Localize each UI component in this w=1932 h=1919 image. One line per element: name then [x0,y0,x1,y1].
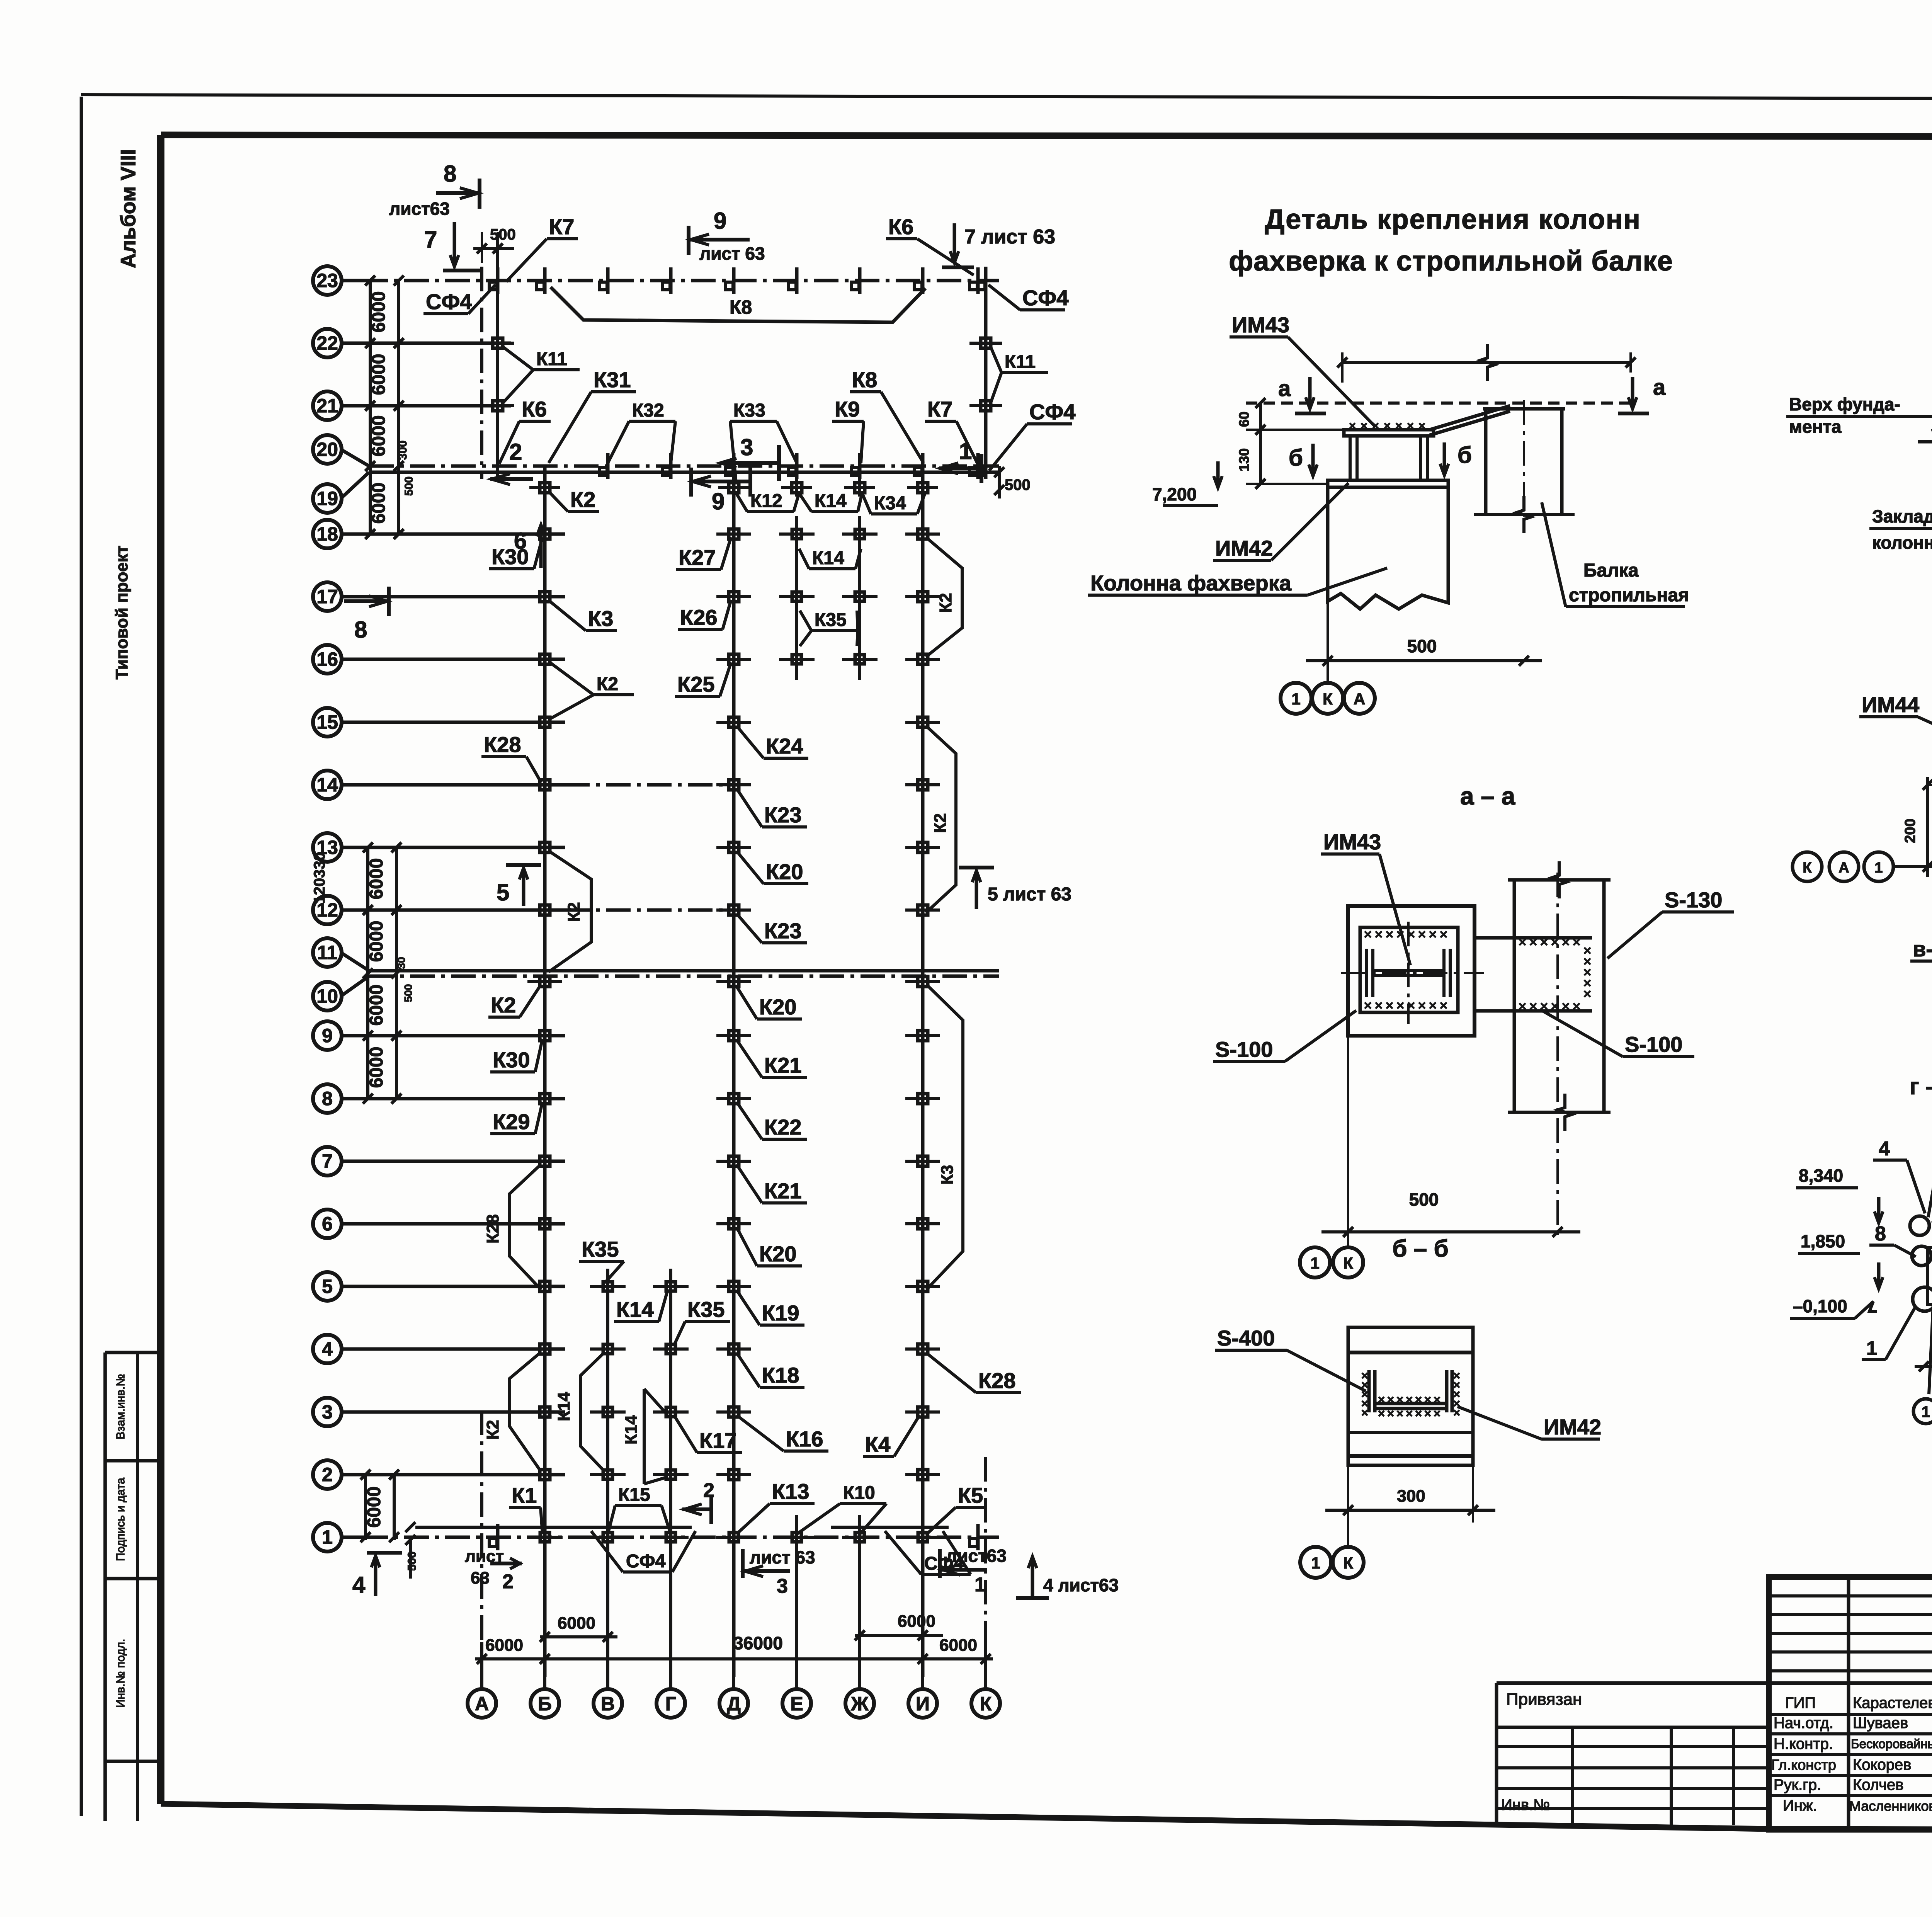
svg-text:А: А [475,1693,489,1715]
svg-text:К2: К2 [565,902,583,922]
svg-text:9: 9 [714,208,726,234]
svg-text:Подпись и дата: Подпись и дата [114,1478,127,1561]
svg-text:2: 2 [703,1479,714,1502]
axis A..K lower stubs to letter circles [480,1642,483,1689]
auxiliary table Привязан [1495,1683,1498,1825]
а-а weld marks on bar [1519,939,1580,945]
axis circle 23 [313,266,342,295]
section mark 8 right (axis 18 left) [344,599,388,603]
column K on Д axis row 2 [729,1470,739,1480]
svg-text:6000: 6000 [485,1636,523,1655]
column K on И axis row 17 [918,592,928,602]
detail1 top dimension line [1342,361,1631,364]
svg-text:К14: К14 [622,1415,641,1444]
axis 9 line [342,1034,565,1038]
г-г column symbol [1910,1216,1929,1235]
axis circle 18 [313,520,342,548]
svg-text:СФ4: СФ4 [1022,286,1068,310]
row 23 column ticks [496,267,500,294]
svg-text:9: 9 [712,488,724,514]
svg-text:7,200: 7,200 [1152,484,1197,504]
column K on Д axis row 12 [729,905,739,915]
svg-text:К8: К8 [730,296,752,318]
svg-text:120330: 120330 [311,852,328,903]
svg-text:К28: К28 [484,732,521,757]
axis circle 8 [313,1084,342,1113]
а-а connecting bar [1475,936,1592,940]
column K on И axis row 9 [918,1031,928,1041]
axis Д vertical [732,466,736,1677]
svg-text:К8: К8 [852,367,877,392]
svg-text:К: К [980,1693,992,1715]
svg-text:К21: К21 [764,1179,801,1203]
svg-text:К34: К34 [874,493,906,514]
svg-text:Нач.отд.: Нач.отд. [1774,1715,1833,1732]
svg-text:18: 18 [316,523,338,545]
column K on И axis row 2 [918,1470,928,1480]
columns row 19 below line on Б Д Е Ж И [540,483,550,493]
column group К8 bracket [551,287,925,322]
svg-text:К7: К7 [927,397,952,421]
axis 22 line [342,342,511,345]
section mark 5 лист 63 (right) [959,866,994,869]
column K on И axis row 15 [918,717,928,727]
svg-text:г – г: г – г [1910,1073,1932,1099]
svg-text:К2: К2 [491,993,516,1017]
row 1 column crosses [527,1536,563,1539]
section mark 3 (axis 20) [777,445,781,481]
section mark 2 left (axis 1) [709,1495,713,1524]
svg-text:500: 500 [403,476,415,496]
svg-text:500: 500 [1407,636,1437,656]
label К2 rotated bracket И axes 18-16 [926,537,962,657]
svg-text:Рук.гр.: Рук.гр. [1774,1776,1821,1793]
label К14 rotated bracket В axes 4-2 [580,1352,605,1472]
svg-text:3: 3 [740,434,753,460]
axis Ж vertical mid [858,518,861,680]
axis circle 9 [313,1021,342,1050]
dimension chain rows 23-18 [369,281,372,534]
column K on Б axis row 5 [540,1281,550,1291]
г-г axis circle 1 [1913,1399,1932,1424]
axis 14 line [342,783,565,787]
svg-text:500: 500 [1005,476,1031,493]
а-а column I-section [1365,949,1368,997]
svg-text:лист 63: лист 63 [750,1547,815,1567]
axis circle 21 [313,391,342,420]
svg-text:б – б: б – б [1392,1235,1449,1262]
svg-text:6000: 6000 [364,1487,384,1528]
axis 19 line [369,471,999,474]
svg-text:лист63: лист63 [389,199,450,219]
bottom section mark 2 right [490,1562,522,1565]
column K on Д axis row 15 [729,717,739,727]
dim 500 below axis 1 [409,1537,412,1579]
axis 12 dash-dot extension [565,908,738,912]
axis Е vertical upper [795,466,798,497]
label К14 rotated bracket Г axes 3-2 [643,1389,646,1484]
svg-text:Взам.инв.№: Взам.инв.№ [114,1374,127,1439]
svg-text:Привязан: Привязан [1506,1690,1582,1709]
svg-text:К13: К13 [772,1479,809,1504]
svg-text:Колонна фахверка: Колонна фахверка [1090,571,1292,595]
column K on Б axis row 2 [540,1470,550,1480]
svg-text:1: 1 [1922,1404,1930,1421]
svg-text:1: 1 [975,1574,986,1596]
svg-text:17: 17 [316,586,338,607]
svg-text:8: 8 [322,1088,333,1109]
axis circle 13 [313,833,342,862]
б-б axis circles 1 К [1347,1523,1349,1547]
svg-text:6: 6 [322,1213,333,1235]
svg-text:S-400: S-400 [1217,1326,1275,1350]
column K on Д axis row 3 [729,1407,739,1417]
axis 6 line [342,1222,565,1226]
svg-text:К11: К11 [536,349,567,369]
detail1 beam centreline [1523,400,1525,526]
axis 3 line [342,1410,565,1414]
column K on Б axis row 17 [540,592,550,602]
svg-text:1: 1 [1311,1554,1320,1572]
column K on Б axis row 8 [540,1094,550,1104]
fachwerk columns on Е Ж rows 16-18 (crosses) [779,658,815,661]
column K on И axis row 7 [918,1156,928,1166]
svg-text:4 лист63: 4 лист63 [1043,1575,1119,1595]
svg-text:СФ4: СФ4 [626,1551,666,1572]
svg-text:мента: мента [1789,417,1842,437]
axis circle 15 [313,708,342,737]
svg-text:К5: К5 [958,1483,983,1507]
svg-text:К14: К14 [812,548,844,568]
svg-text:К20: К20 [759,1242,796,1266]
axis 1 line (dash-dot) [363,1536,999,1539]
svg-text:К21: К21 [764,1053,801,1077]
axis Ж vertical lower [858,1515,861,1677]
axis circle 3 [313,1398,342,1426]
axis circle 10 [313,982,342,1011]
margin stamp table [104,1352,107,1821]
svg-text:200: 200 [1902,818,1918,843]
svg-text:К22: К22 [764,1115,801,1139]
svg-text:К4: К4 [865,1432,890,1456]
axis circle 17 [313,582,342,611]
svg-text:К28: К28 [978,1368,1015,1393]
svg-text:К: К [1323,690,1333,708]
svg-text:10: 10 [316,985,338,1007]
svg-text:500: 500 [406,1552,418,1571]
svg-text:Инв.№ подл.: Инв.№ подл. [114,1639,127,1708]
axis И vertical [921,466,925,1677]
title block staff rows [1769,1713,1932,1716]
svg-text:К20: К20 [759,995,796,1019]
axis К vertical upper [984,267,988,479]
svg-text:Колчев: Колчев [1853,1776,1903,1793]
bottom dim row Б-В 6000 [540,1635,617,1638]
svg-text:1: 1 [1310,1254,1319,1272]
а-а beam flange (vertical) [1513,880,1516,1112]
svg-text:3: 3 [777,1575,788,1597]
sheet outer border left [80,97,83,1816]
svg-text:5: 5 [497,880,509,905]
axis 8 line [342,1097,565,1101]
axis circle 16 [313,645,342,674]
svg-text:1: 1 [322,1526,333,1548]
svg-text:К6: К6 [888,214,913,239]
svg-text:К9: К9 [835,397,860,421]
column K on И axis row 18 [918,529,928,539]
svg-text:фахверка к стропильной балке: фахверка к стропильной балке [1229,246,1673,277]
б-б column outline [1348,1327,1473,1465]
svg-text:1,850: 1,850 [1801,1231,1845,1251]
axis circle 7 [313,1147,342,1176]
bottom main dim row 6000-36000-6000 [475,1657,993,1660]
axis circle 5 [313,1272,342,1301]
svg-text:Кокорев: Кокорев [1853,1756,1911,1773]
svg-text:63: 63 [471,1569,490,1587]
svg-text:К26: К26 [680,605,717,629]
svg-text:7 лист 63: 7 лист 63 [964,226,1055,248]
axis 13 line [342,846,565,849]
svg-text:К35: К35 [815,610,847,630]
svg-text:23: 23 [316,270,338,291]
column K on Б axis row 15 [540,717,550,727]
detail1 axis circles 1 К А [1327,672,1329,683]
svg-text:ГИП: ГИП [1785,1694,1816,1711]
svg-text:1: 1 [1291,690,1300,708]
svg-text:А: А [1838,860,1849,876]
svg-text:б: б [1289,445,1303,471]
svg-text:S-100: S-100 [1215,1037,1273,1062]
svg-text:6000: 6000 [366,1047,387,1088]
svg-text:Шуваев: Шуваев [1853,1715,1908,1732]
svg-text:6000: 6000 [369,483,389,524]
detail1 труss beam (балка стропильная) [1484,409,1488,515]
label К3 rotated bracket И axes 10-5 [927,985,963,1290]
svg-text:3: 3 [322,1401,333,1423]
svg-text:Бескоровайный: Бескоровайный [1851,1737,1932,1751]
axis circle 6 [313,1210,342,1238]
axis 10 line (dash-dot) [369,975,999,978]
bottom dim row Ж-И 6000 [855,1634,943,1637]
column K on Б axis row 18 [540,529,550,539]
svg-text:Д: Д [727,1693,741,1715]
svg-text:Деталь крепления колонн: Деталь крепления колонн [1265,204,1641,235]
svg-text:7: 7 [424,226,437,252]
axis Г vertical lower [669,1271,672,1677]
svg-text:Типовой проект: Типовой проект [112,546,131,680]
bottom section mark 4 up with лист63 [1031,1557,1034,1598]
б-б channel cap with welds [1367,1370,1371,1412]
label К2 rotated bracket Б axes 4-2 [509,1352,541,1472]
svg-text:6000: 6000 [558,1614,595,1633]
svg-text:14: 14 [316,774,338,796]
column K on Д axis row 13 [729,842,739,852]
label К2 rotated bracket Б axes 13-11 [549,851,591,972]
svg-text:8: 8 [354,617,367,643]
svg-text:К7: К7 [549,214,574,239]
svg-text:К: К [1343,1554,1353,1572]
drawing frame [157,135,165,1804]
column K on Д axis row 7 [729,1156,739,1166]
в-в dim 200 [1926,777,1929,877]
svg-text:ИМ43: ИМ43 [1323,830,1381,854]
svg-text:Гл.констр: Гл.констр [1771,1757,1836,1773]
а-а beam centreline [1556,873,1559,1239]
svg-text:21: 21 [316,395,338,417]
section mark 5 up (left) [506,863,541,867]
letter axis circles А-К [468,1689,496,1718]
а-а embed plate with welds [1360,927,1458,1012]
column K on Д axis row 14 [729,780,739,790]
svg-text:4: 4 [1879,1138,1890,1160]
svg-text:20: 20 [316,439,338,460]
svg-text:Верх фунда-: Верх фунда- [1789,394,1900,414]
svg-text:В: В [601,1693,615,1715]
svg-text:6000: 6000 [369,415,389,457]
svg-text:8: 8 [1875,1223,1886,1245]
svg-text:К31: К31 [594,367,631,392]
column K on Б axis row 13 [540,842,550,852]
column K on И axis row 3 [918,1407,928,1417]
column K on Д axis row 4 [729,1344,739,1354]
axis 21 line [342,404,511,408]
detail1 base plate ИМ42 [1328,480,1448,487]
svg-text:19: 19 [316,488,338,509]
svg-text:К11: К11 [1005,352,1036,372]
svg-text:К14: К14 [554,1392,573,1421]
svg-text:5: 5 [322,1276,333,1297]
axis 17 line [342,595,565,599]
svg-text:а: а [1278,376,1291,401]
svg-text:колонны: колонны [1872,532,1932,553]
column K on Д axis row 5 [729,1281,739,1291]
sheet outer border top [81,95,1932,100]
detail1 column head web [1349,436,1352,480]
svg-text:К2: К2 [597,674,618,694]
svg-text:К17: К17 [699,1428,736,1453]
axis Б vertical [543,466,547,1677]
section mark 7 down with лист (top right) [953,223,956,263]
svg-text:Инж.: Инж. [1783,1797,1817,1814]
svg-text:лист 63: лист 63 [699,243,765,264]
column K on И axis row 12 [918,905,928,915]
column K on Д axis row 6 [729,1219,739,1229]
axis circle 22 [313,329,342,357]
column K on Б axis row 4 [540,1344,550,1354]
detail2 top of foundation line [1918,440,1932,444]
svg-text:S-100: S-100 [1625,1032,1682,1056]
fachwerk column body [1328,487,1448,609]
column K on Б axis row 6 [540,1219,550,1229]
svg-text:16: 16 [316,648,338,670]
svg-text:Балка: Балка [1583,560,1639,581]
section mark 4 up (bottom left) [367,1551,402,1555]
axis circle 2 [313,1460,342,1489]
svg-text:К15: К15 [618,1485,650,1505]
axis Е vertical lower [795,1515,798,1677]
svg-text:2: 2 [502,1570,514,1593]
svg-text:ИМ43: ИМ43 [1232,313,1289,337]
svg-text:22: 22 [316,332,338,354]
axis К vertical lower (dash-dot) [984,1457,987,1677]
row 1 offset fachwerk line 500 [415,1526,692,1529]
svg-text:К20: К20 [766,859,803,884]
column K on И axis row 6 [918,1219,928,1229]
svg-text:ИМ44: ИМ44 [1862,692,1919,717]
dimension chain rows 13-8 [366,847,369,1099]
svg-text:500: 500 [490,226,516,243]
svg-text:К30: К30 [493,1048,530,1072]
в-в axis circles К А 1 [1793,852,1822,881]
axis 2 line [342,1473,565,1477]
svg-text:6000: 6000 [898,1612,935,1631]
svg-text:S-130: S-130 [1665,888,1722,912]
axis 18 line [342,532,565,536]
svg-text:6000: 6000 [939,1636,977,1655]
svg-text:7: 7 [322,1150,333,1172]
axis 11 line [369,969,999,973]
svg-text:К29: К29 [493,1109,530,1134]
detail1 sloped connection plate [1430,406,1510,430]
axis circle 11 [313,938,342,967]
axis Ж vertical upper [858,466,861,497]
axis 14 dash-dot extension [565,783,738,787]
svg-text:К2: К2 [570,487,595,512]
svg-text:Ж: Ж [850,1693,869,1715]
svg-text:Б: Б [538,1693,552,1715]
svg-text:60: 60 [1236,412,1252,427]
detail1 dim 500 [1327,601,1329,672]
svg-text:Н.контр.: Н.контр. [1774,1735,1833,1752]
axis circle 14 [313,771,342,799]
axis circle 19 [313,484,342,513]
svg-text:6000: 6000 [369,291,389,333]
column K on Д axis row 17 [729,592,739,602]
svg-text:К19: К19 [762,1301,799,1325]
svg-text:6000: 6000 [369,354,389,395]
svg-text:15: 15 [316,711,338,733]
title block outer box [1769,1577,1932,1830]
axis circle 4 [313,1335,342,1363]
fachwerk columns К11 on А' rows 22 21 [493,338,503,348]
svg-text:6000: 6000 [366,921,387,962]
column K on И axis row 13 [918,842,928,852]
svg-text:лист63: лист63 [946,1546,1007,1566]
svg-text:К25: К25 [677,672,714,696]
row 1 fachwerk ticks А' К' [496,1524,500,1550]
svg-text:К2: К2 [936,593,955,612]
label К28 rotated bracket Б axes 7-5 [509,1164,541,1290]
title block top empty rows [1769,1594,1932,1597]
svg-text:К32: К32 [632,400,664,421]
svg-text:СФ4: СФ4 [1029,400,1075,424]
column K on Б axis row 9 [540,1031,550,1041]
axis 20 line [369,464,999,468]
column K on Б axis row 14 [540,780,550,790]
svg-text:К14: К14 [815,491,847,511]
svg-text:К3: К3 [588,606,613,631]
а-а centrelines [1341,972,1484,974]
svg-text:8: 8 [444,161,456,187]
svg-text:а – а: а – а [1460,782,1515,810]
svg-text:в-200: в-200 [1913,937,1932,961]
svg-text:К33: К33 [733,400,765,421]
axis circle 20 [313,435,342,464]
axis 12 line [342,908,565,912]
svg-text:К: К [1343,1254,1353,1272]
axis Е vertical mid [795,518,798,680]
svg-text:30: 30 [395,957,407,969]
